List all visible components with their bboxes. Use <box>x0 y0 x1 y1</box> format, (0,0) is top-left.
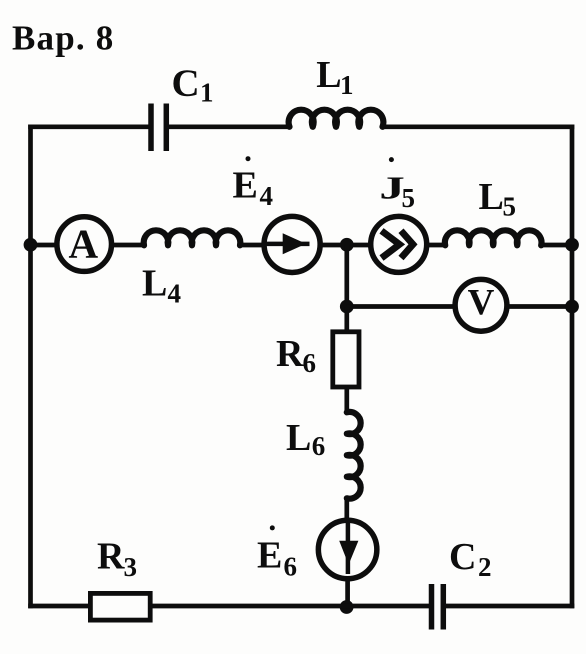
resistor R3 <box>90 593 150 620</box>
svg-text:5: 5 <box>402 183 416 213</box>
svg-text:6: 6 <box>303 348 317 378</box>
wire L5 to right rail <box>540 243 572 248</box>
node A left rail middle <box>24 238 38 252</box>
voltmeter V <box>455 279 507 331</box>
label R3 <box>97 536 137 582</box>
label R6 <box>276 333 316 378</box>
wire E4 to J5 through node B <box>319 243 372 248</box>
svg-text:4: 4 <box>260 181 274 211</box>
label E4 <box>233 156 274 211</box>
svg-text:R: R <box>97 536 125 578</box>
svg-text:E: E <box>257 534 282 576</box>
label C1 <box>172 62 214 108</box>
wire bottom-left to R3 <box>28 604 92 609</box>
wire C2 to bottom-right corner <box>443 604 574 609</box>
title Вар. 8 <box>12 19 115 58</box>
wire L6 to E6 <box>344 497 349 521</box>
inductor L1 <box>289 110 384 127</box>
svg-text:6: 6 <box>284 551 298 581</box>
svg-text:Вар. 8: Вар. 8 <box>12 19 115 58</box>
wire L1 to top-right corner <box>382 124 575 129</box>
svg-text:5: 5 <box>503 191 517 221</box>
label L5 <box>479 176 517 221</box>
wire right rail <box>570 125 575 609</box>
svg-text:C: C <box>172 62 200 105</box>
inductor L6 <box>347 412 361 499</box>
inductor L5 <box>445 230 542 245</box>
wire node D to R6 <box>344 307 349 334</box>
svg-text:2: 2 <box>478 552 492 582</box>
svg-text:L: L <box>479 176 504 218</box>
label L1 <box>316 54 353 100</box>
svg-text:6: 6 <box>312 431 326 461</box>
capacitor C1 <box>151 104 166 152</box>
wire node A to ammeter <box>31 243 59 248</box>
label J5 <box>379 157 415 213</box>
source E6 <box>318 520 377 579</box>
label L4 <box>142 263 181 309</box>
svg-text:1: 1 <box>200 78 214 108</box>
node B middle junction <box>340 238 354 252</box>
capacitor C2 <box>432 584 444 630</box>
wire node B down to node D <box>344 245 349 307</box>
inductor L4 <box>144 230 241 245</box>
wire node D to voltmeter <box>347 304 456 309</box>
label C2 <box>449 536 492 582</box>
label L6 <box>286 417 325 461</box>
wire E6 to bottom node F <box>345 578 350 606</box>
svg-text:A: A <box>68 220 98 266</box>
svg-text:L: L <box>316 54 341 96</box>
wire C1 to L1 <box>166 124 290 129</box>
svg-text:C: C <box>449 536 476 578</box>
wire top-left to C1 <box>28 124 151 129</box>
current source J5 <box>371 216 427 272</box>
wire ammeter to L4 <box>111 243 145 248</box>
svg-text:V: V <box>468 283 495 324</box>
svg-text:4: 4 <box>168 279 182 309</box>
node F bottom junction <box>340 600 354 614</box>
wire left rail <box>28 125 33 609</box>
node E right rail V-branch <box>565 300 579 314</box>
wire J5 to L5 <box>426 243 447 248</box>
ammeter A <box>57 217 112 272</box>
resistor R6 <box>333 332 359 387</box>
wire R3 to C2 <box>148 604 432 609</box>
source E4 <box>264 216 320 272</box>
node C right rail middle <box>565 238 579 252</box>
node D V-branch junction <box>340 300 354 314</box>
svg-text:3: 3 <box>124 552 138 582</box>
wire voltmeter to right rail <box>506 304 572 309</box>
wire L4 to E4 <box>239 243 266 248</box>
wire R6 to L6 <box>344 387 349 413</box>
label E6 <box>257 525 297 581</box>
svg-text:1: 1 <box>340 70 354 100</box>
svg-text:L: L <box>142 263 167 305</box>
svg-text:L: L <box>286 417 311 459</box>
svg-text:E: E <box>233 164 258 206</box>
svg-text:R: R <box>276 333 304 375</box>
